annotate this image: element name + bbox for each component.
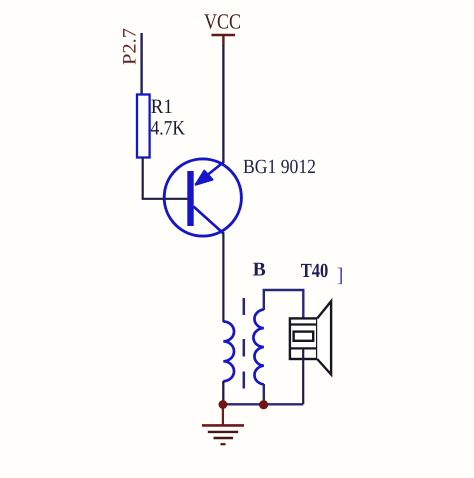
wire secondary top to speaker (264, 290, 304, 325)
svg-text:]: ] (337, 265, 344, 287)
speaker bottom pin wire (302, 348, 304, 404)
ground bar 4 (221, 443, 226, 445)
ground bar 3 (214, 437, 234, 439)
svg-text:B: B (253, 260, 266, 281)
transistor emitter arrow (196, 171, 213, 185)
svg-text:P2.7: P2.7 (120, 28, 141, 65)
svg-text:4.7K: 4.7K (151, 118, 186, 140)
transformer B primary winding (223, 322, 234, 382)
transformer secondary winding (253, 310, 263, 385)
svg-text:T40: T40 (301, 260, 329, 282)
svg-text:VCC: VCC (204, 10, 241, 34)
power symbol VCC stub (222, 35, 224, 46)
resistor R1 body (137, 95, 150, 158)
wire resistor to base (143, 158, 188, 199)
wire bottom rail (223, 403, 303, 405)
wire primary to ground node (222, 381, 224, 405)
wire collector to transformer (222, 233, 224, 323)
wire VCC to transistor emitter (222, 45, 224, 163)
transistor Q BG1 circle (164, 159, 241, 236)
junction node right (259, 400, 268, 409)
transistor collector line (194, 207, 224, 234)
speaker top plate line (290, 323, 317, 325)
wire secondary bottom to node (263, 384, 265, 405)
ground bar 2 (208, 431, 238, 433)
speaker cone (317, 301, 331, 374)
transformer core dashed line (243, 298, 246, 389)
svg-text:BG1 9012: BG1 9012 (243, 156, 316, 178)
speaker coil box (294, 332, 314, 341)
svg-text:R1: R1 (151, 96, 173, 118)
speaker bottom plate line (290, 347, 317, 349)
ground stem (222, 406, 224, 425)
transistor base bar (187, 171, 193, 226)
ground bar 1 (202, 424, 244, 427)
transistor emitter line (196, 162, 224, 185)
junction node left (219, 400, 228, 409)
speaker LS frame (290, 318, 317, 359)
wire P2.7 to resistor (140, 33, 142, 95)
power symbol VCC bar (212, 34, 236, 37)
